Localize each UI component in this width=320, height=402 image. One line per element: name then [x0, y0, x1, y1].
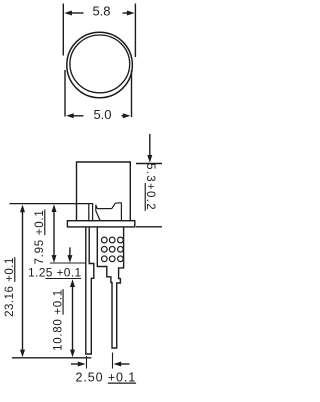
7.95 dimension line	[53, 209, 55, 258]
svg-text:1.25 +0.1: 1.25 +0.1	[28, 266, 82, 280]
dot pattern on anode blade	[101, 237, 123, 262]
svg-text:10.80 +0.1: 10.80 +0.1	[53, 289, 65, 351]
underline / step-bottom reference line	[46, 278, 82, 280]
10.80 dimension line (shared 1.25 bottom arrow at top)	[72, 284, 74, 353]
extension line at lead tips	[12, 357, 91, 359]
svg-text:2.50 +0.1: 2.50 +0.1	[76, 371, 137, 385]
extension line at flange bottom for 5.3 dim	[136, 226, 162, 228]
2.50 left arrow	[71, 363, 79, 365]
extension line at post top	[9, 203, 88, 205]
dimension line 5.0 right arrow	[122, 115, 126, 117]
inner circle (5.0 dome, top view)	[70, 35, 130, 93]
svg-text:5.3+0.2: 5.3+0.2	[144, 163, 156, 211]
extension line at body top for 5.3 dim	[136, 163, 162, 165]
svg-text:5.0: 5.0	[93, 107, 111, 122]
2.50 right arrow	[121, 363, 130, 365]
outer circle (5.8 flange, top view)	[67, 32, 133, 98]
extension line below left lead for 2.50	[86, 356, 88, 369]
left lead (cathode) outline	[86, 227, 94, 354]
svg-text:7.95 +0.1: 7.95 +0.1	[34, 209, 46, 264]
svg-text:5.8: 5.8	[92, 4, 110, 19]
extension line below right lead for 2.50	[112, 353, 114, 369]
dimension line 5.8 left arrow	[70, 12, 84, 14]
23.16 dimension line	[22, 209, 24, 353]
extension line left of 5.8 dim	[62, 4, 64, 56]
dimension line 5.8 right arrow	[123, 12, 129, 14]
internal post lead	[89, 204, 93, 221]
LED body outline (side view)	[77, 162, 131, 221]
internal reflector cup	[96, 203, 122, 221]
extension line at lead step top	[50, 262, 86, 264]
5.3 dim down arrow	[149, 134, 151, 156]
extension line right of 5.8 dim	[134, 4, 136, 58]
1.25 top arrow	[69, 247, 71, 256]
extension line right of 5.0 dim	[131, 70, 133, 117]
svg-text:23.16 +0.1: 23.16 +0.1	[4, 257, 16, 317]
flange (side view)	[67, 221, 134, 227]
dimension line 5.0 left arrow	[72, 115, 84, 117]
extension line left of 5.0 dim	[64, 70, 66, 117]
right lead (anode) wide blade outline	[97, 227, 123, 348]
